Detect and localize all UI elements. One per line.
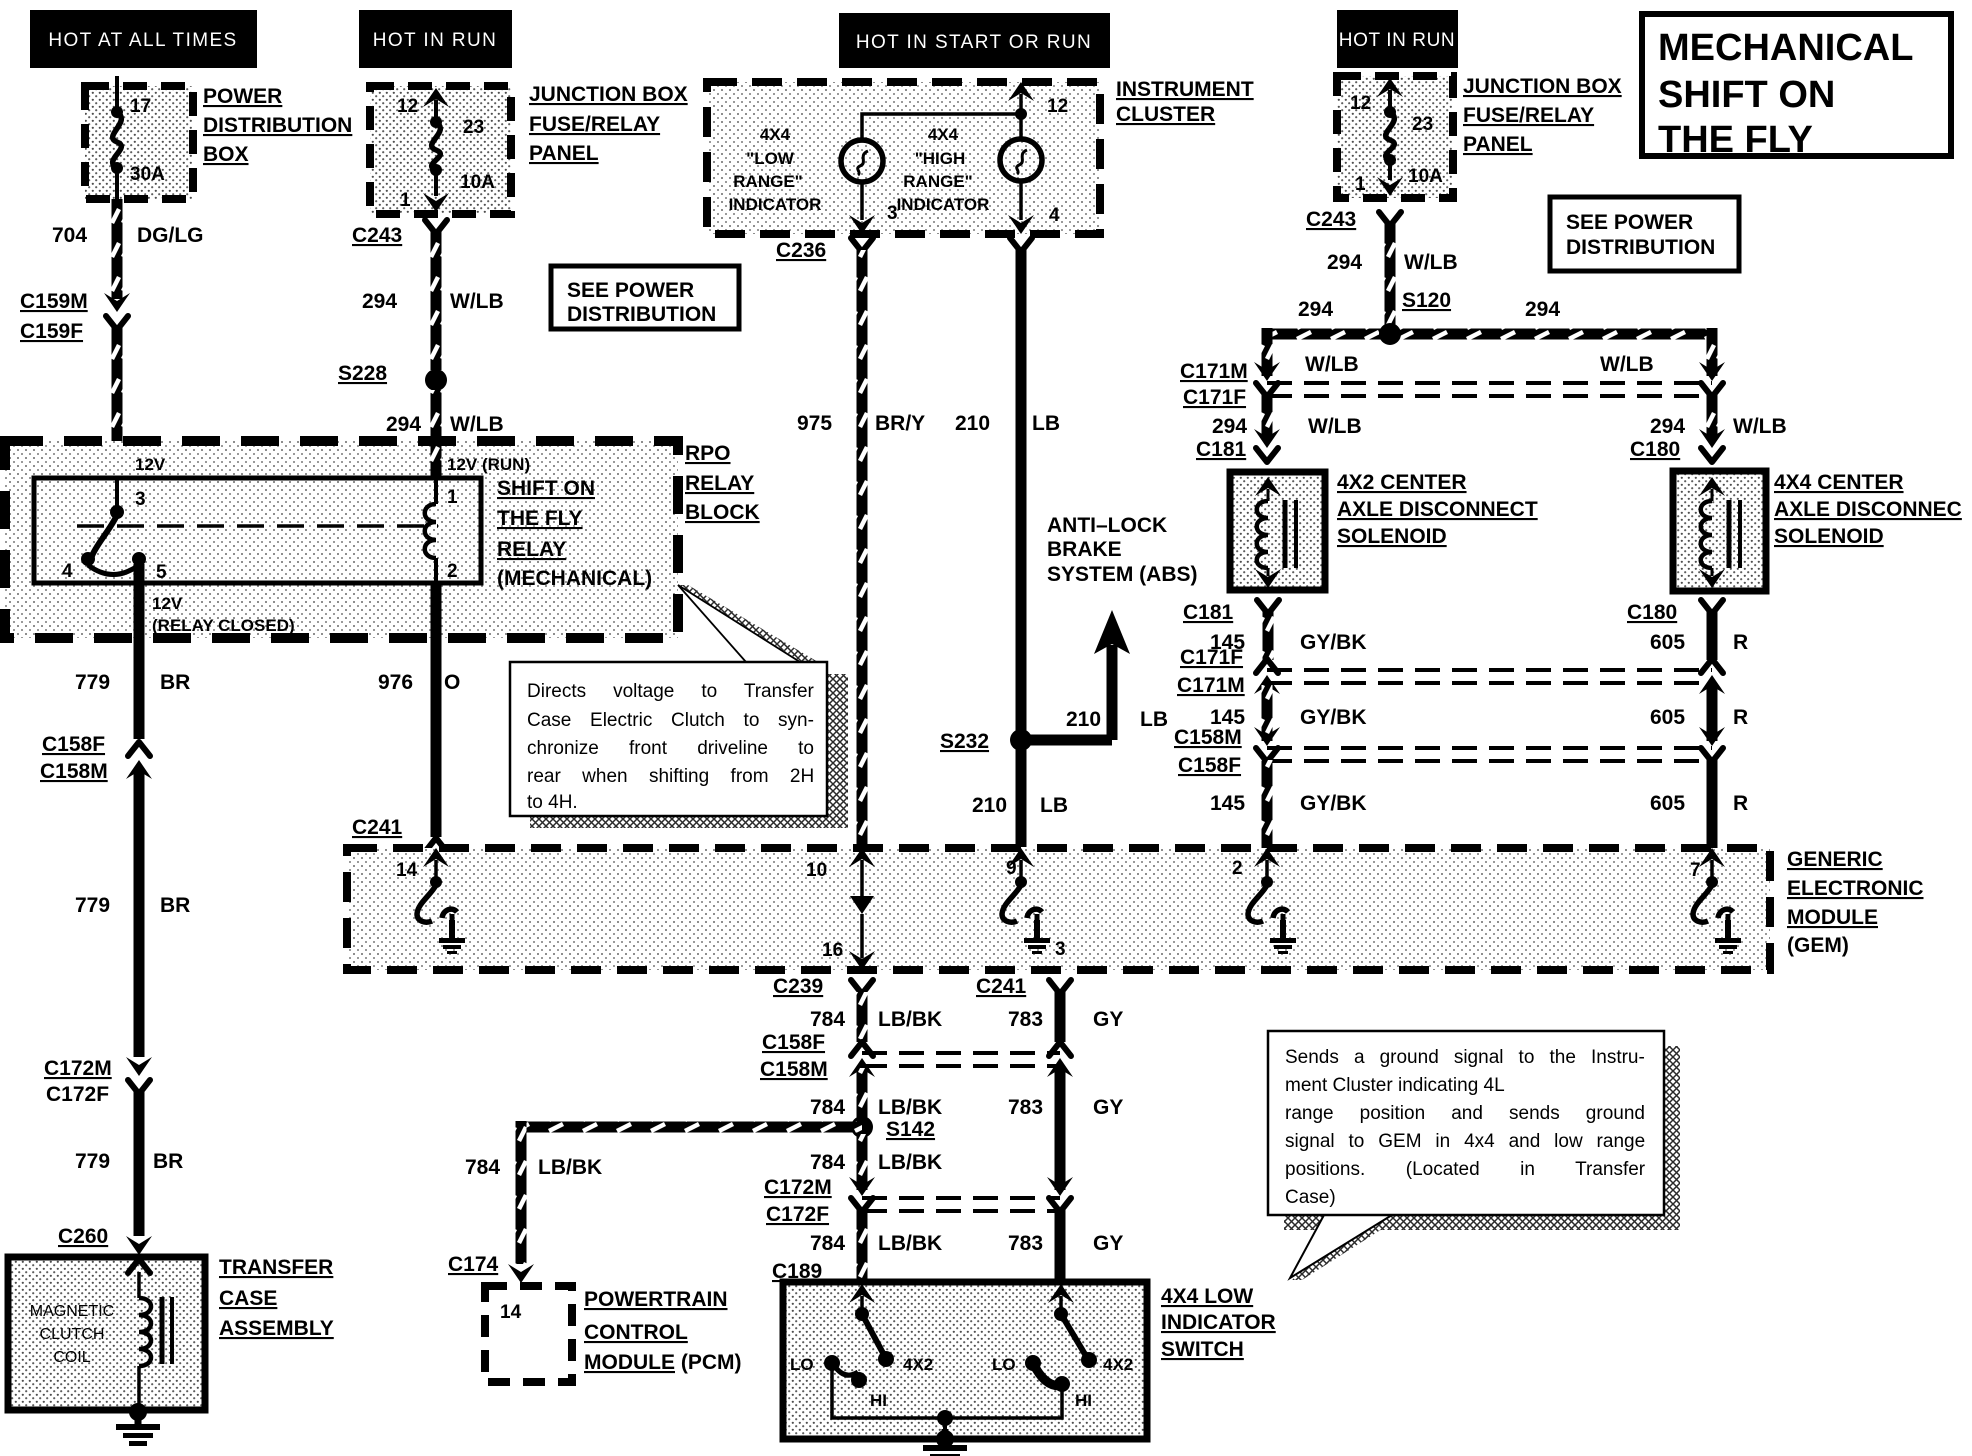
svg-text:Case Electric Clutch to syn-: Case Electric Clutch to syn- xyxy=(527,710,814,731)
svg-text:1: 1 xyxy=(447,487,458,508)
instrument cluster box xyxy=(707,82,1100,234)
svg-text:C171F: C171F xyxy=(1183,386,1246,409)
svg-text:12: 12 xyxy=(1350,93,1371,114)
magnetic clutch coil xyxy=(139,1272,151,1407)
GEM pin 10 xyxy=(849,848,875,896)
svg-text:12: 12 xyxy=(1047,96,1068,117)
svg-text:COIL: COIL xyxy=(53,1349,90,1366)
svg-text:14: 14 xyxy=(396,860,418,881)
title MECHANICAL SHIFT ON THE FLY xyxy=(1642,14,1951,161)
svg-text:C172F: C172F xyxy=(46,1083,109,1106)
svg-text:C243: C243 xyxy=(352,224,402,247)
svg-text:BR: BR xyxy=(160,671,190,694)
banner HOT IN RUN (left) xyxy=(359,10,512,68)
svg-text:GY/BK: GY/BK xyxy=(1300,792,1367,815)
svg-text:12V: 12V xyxy=(152,594,183,613)
contact LO (left) xyxy=(824,1355,840,1371)
connector C172 pair on 783 xyxy=(1047,1177,1073,1212)
svg-text:GY: GY xyxy=(1093,1232,1123,1255)
label 704 DG/LG xyxy=(52,224,204,247)
svg-text:RANGE": RANGE" xyxy=(903,172,972,191)
splice S120 xyxy=(1379,323,1401,345)
wire stub above PDB xyxy=(115,76,119,86)
wire 975 BR/Y xyxy=(857,250,868,847)
svg-text:SEE POWER: SEE POWER xyxy=(567,279,694,302)
fuse 17 30A xyxy=(111,86,123,199)
label JUNCTION BOX FUSE/RELAY PANEL (right) xyxy=(1463,75,1622,156)
svg-text:MECHANICAL: MECHANICAL xyxy=(1658,27,1913,69)
note: directs voltage callout pointer xyxy=(678,585,818,662)
relay contact arc xyxy=(88,565,139,575)
svg-text:CLUTCH: CLUTCH xyxy=(40,1326,105,1343)
svg-text:THE FLY: THE FLY xyxy=(1658,119,1813,161)
relay contact 4 xyxy=(81,552,95,566)
svg-text:C171F: C171F xyxy=(1180,646,1243,669)
connector row C172M/C172F (middle) xyxy=(862,1198,1060,1211)
wire 784 LB/BK seg3 xyxy=(857,1134,868,1190)
wire 783 GY seg2 xyxy=(1055,1068,1066,1190)
generic electronic module (GEM) box xyxy=(347,848,1770,970)
svg-text:294: 294 xyxy=(362,290,397,313)
wire 294 right branch drop xyxy=(1707,328,1718,376)
wire 784 branch to PCM (horizontal) xyxy=(521,1122,862,1133)
cluster wire to low-range lamp xyxy=(862,114,1021,141)
wire 605 R seg3 xyxy=(1707,760,1718,848)
switch right arm xyxy=(1061,1314,1097,1368)
svg-text:5: 5 xyxy=(156,562,167,583)
svg-text:C172M: C172M xyxy=(764,1176,832,1199)
label 4X4 LOW INDICATOR SWITCH xyxy=(1161,1285,1276,1361)
wire 784 LB/BK seg1 xyxy=(857,992,868,1042)
svg-text:LB/BK: LB/BK xyxy=(878,1096,942,1119)
wire 210 LB branch to ABS xyxy=(1026,610,1130,746)
label INSTRUMENT CLUSTER xyxy=(1116,78,1254,126)
svg-text:S232: S232 xyxy=(940,730,989,753)
svg-text:SWITCH: SWITCH xyxy=(1161,1338,1244,1361)
svg-text:1: 1 xyxy=(400,190,411,211)
svg-text:4X2: 4X2 xyxy=(1103,1355,1133,1374)
svg-text:positions. (Located in Transfe: positions. (Located in Transfer xyxy=(1285,1159,1646,1180)
contact HI (left) xyxy=(851,1372,867,1388)
connector C158 pair on 784 xyxy=(849,1042,875,1077)
clutch box entry bell xyxy=(128,1259,150,1273)
svg-text:chronize front driveline to: chronize front driveline to xyxy=(527,738,814,759)
svg-text:SOLENOID: SOLENOID xyxy=(1774,525,1884,548)
label 12V (RELAY CLOSED) xyxy=(152,594,295,635)
svg-text:784: 784 xyxy=(810,1151,845,1174)
ground (transfer case) xyxy=(116,1403,160,1446)
svg-text:PANEL: PANEL xyxy=(529,142,599,165)
wire 605 R seg1 xyxy=(1707,612,1718,660)
svg-text:C181: C181 xyxy=(1196,438,1247,461)
label 784 LB/BK (branch) xyxy=(465,1156,602,1179)
transfer case assembly box (magnetic clutch coil) xyxy=(8,1257,205,1410)
connector C158F/C158M (left) xyxy=(126,742,152,779)
label 784 LB/BK 783 GY (row2) xyxy=(810,1096,1123,1119)
relay box (shift on the fly relay) xyxy=(34,478,481,583)
label 605 R (3) xyxy=(1650,792,1748,815)
svg-text:210: 210 xyxy=(1066,708,1101,731)
svg-text:SEE POWER: SEE POWER xyxy=(1566,211,1693,234)
svg-text:JUNCTION BOX: JUNCTION BOX xyxy=(529,83,688,106)
svg-text:SYSTEM (ABS): SYSTEM (ABS) xyxy=(1047,563,1198,586)
svg-text:605: 605 xyxy=(1650,792,1685,815)
wire 783 GY seg4 xyxy=(1055,1210,1066,1282)
svg-text:GY/BK: GY/BK xyxy=(1300,631,1367,654)
svg-text:784: 784 xyxy=(810,1096,845,1119)
svg-text:3: 3 xyxy=(135,489,146,510)
label 4X2 CENTER AXLE DISCONNECT SOLENOID xyxy=(1337,471,1538,548)
GEM pin 16 exit xyxy=(849,951,875,970)
connector C239 xyxy=(851,980,873,994)
relay pin 3 node xyxy=(110,478,124,519)
wire 704 DG/LG lower xyxy=(112,328,123,478)
4x4 high range indicator lamp xyxy=(1000,139,1042,181)
connector C171 mid pair left xyxy=(1254,659,1280,694)
relay coil xyxy=(425,478,436,583)
svg-text:1: 1 xyxy=(1355,174,1366,195)
4x2 solenoid coil xyxy=(1255,477,1281,588)
connector C236 (pin 4) xyxy=(1010,238,1032,252)
svg-text:LB/BK: LB/BK xyxy=(878,1232,942,1255)
GEM switch at pin 2 xyxy=(1248,885,1288,934)
svg-text:C159M: C159M xyxy=(20,290,88,313)
svg-text:23: 23 xyxy=(463,117,484,138)
wire 783 GY seg1 xyxy=(1055,992,1066,1042)
svg-text:DISTRIBUTION: DISTRIBUTION xyxy=(567,303,716,326)
svg-text:9: 9 xyxy=(1006,858,1017,879)
svg-text:783: 783 xyxy=(1008,1008,1043,1031)
label 210 LB (below S232) xyxy=(972,794,1068,817)
svg-text:145: 145 xyxy=(1210,792,1245,815)
svg-text:signal to GEM in 4x4 and low r: signal to GEM in 4x4 and low range xyxy=(1285,1131,1645,1152)
4x4 solenoid core bars xyxy=(1729,500,1740,568)
svg-text:SHIFT ON: SHIFT ON xyxy=(1658,74,1835,116)
svg-text:C158M: C158M xyxy=(40,760,108,783)
note: sends ground signal shadow xyxy=(1284,1046,1680,1230)
svg-text:W/LB: W/LB xyxy=(450,290,504,313)
GEM switch at pin 9 xyxy=(1002,885,1042,934)
svg-text:4X4: 4X4 xyxy=(928,125,959,144)
connector C243 xyxy=(425,220,447,234)
svg-text:Directs voltage to Transfer: Directs voltage to Transfer xyxy=(527,681,815,702)
svg-text:POWER: POWER xyxy=(203,85,282,108)
svg-text:FUSE/RELAY: FUSE/RELAY xyxy=(529,113,660,136)
switch right detent arc (closed) xyxy=(1033,1363,1065,1386)
relay switch arm xyxy=(92,515,117,556)
svg-text:C172F: C172F xyxy=(766,1203,829,1226)
wire 145 GY/BK seg3 xyxy=(1262,760,1273,848)
label 294 W/LB xyxy=(362,290,504,313)
svg-text:W/LB: W/LB xyxy=(1404,251,1458,274)
svg-text:R: R xyxy=(1733,792,1748,815)
svg-text:C158F: C158F xyxy=(762,1031,825,1054)
svg-text:605: 605 xyxy=(1650,631,1685,654)
svg-text:294: 294 xyxy=(386,413,421,436)
wire 976 O xyxy=(431,583,442,837)
connector row C171M/C171F (top) xyxy=(1267,383,1712,396)
switch left pin entry xyxy=(849,1284,875,1321)
svg-text:12V: 12V xyxy=(135,455,166,474)
svg-text:BLOCK: BLOCK xyxy=(685,501,760,524)
svg-text:4: 4 xyxy=(1049,205,1060,226)
svg-text:Sends a ground signal to the I: Sends a ground signal to the Instru- xyxy=(1285,1047,1645,1068)
svg-text:S120: S120 xyxy=(1402,289,1451,312)
svg-text:C260: C260 xyxy=(58,1225,108,1248)
svg-text:C174: C174 xyxy=(448,1253,499,1276)
connector C171 pair left xyxy=(1254,362,1280,397)
label 294 W/LB (left of C181) xyxy=(1212,415,1362,438)
connector C172 pair on 784 xyxy=(849,1177,875,1212)
connector C172M/C172F (left) xyxy=(126,1057,152,1094)
svg-text:30A: 30A xyxy=(130,164,165,185)
relay internal dashed line xyxy=(77,524,438,528)
wire 605 R seg2 xyxy=(1707,685,1718,741)
label 4X4 "LOW RANGE" INDICATOR xyxy=(729,125,822,214)
wire 784 LB/BK seg2 xyxy=(857,1068,868,1120)
svg-text:O: O xyxy=(444,671,460,694)
wire lamp to pin 4 xyxy=(1008,181,1034,234)
svg-text:BR/Y: BR/Y xyxy=(875,412,925,435)
svg-text:C158M: C158M xyxy=(760,1058,828,1081)
svg-text:ASSEMBLY: ASSEMBLY xyxy=(219,1317,334,1340)
svg-text:LO: LO xyxy=(790,1355,814,1374)
svg-text:CONTROL: CONTROL xyxy=(584,1321,688,1344)
svg-text:HI: HI xyxy=(1075,1391,1092,1410)
connector C243 (right) xyxy=(1379,212,1401,226)
label 145 GY/BK (2) xyxy=(1210,706,1367,729)
svg-text:INDICATOR: INDICATOR xyxy=(897,195,990,214)
svg-text:C241: C241 xyxy=(976,975,1027,998)
connector C260 xyxy=(126,1236,152,1255)
svg-text:779: 779 xyxy=(75,671,110,694)
svg-text:4X4 LOW: 4X4 LOW xyxy=(1161,1285,1253,1308)
splice S232 xyxy=(1010,729,1032,751)
svg-text:704: 704 xyxy=(52,224,87,247)
svg-text:S142: S142 xyxy=(886,1118,935,1141)
svg-text:R: R xyxy=(1733,631,1748,654)
svg-text:10A: 10A xyxy=(1408,166,1443,187)
svg-text:DG/LG: DG/LG xyxy=(137,224,204,247)
powertrain control module box xyxy=(485,1286,572,1382)
svg-text:294: 294 xyxy=(1650,415,1685,438)
svg-text:C171M: C171M xyxy=(1177,674,1245,697)
GEM switch at pin 14 xyxy=(417,885,457,934)
svg-text:C241: C241 xyxy=(352,816,403,839)
svg-text:FUSE/RELAY: FUSE/RELAY xyxy=(1463,104,1594,127)
switch right pin entry xyxy=(1048,1284,1074,1321)
4x4 low indicator switch box xyxy=(783,1282,1147,1439)
svg-text:210: 210 xyxy=(972,794,1007,817)
wire 294 left (to C181) xyxy=(1262,395,1273,437)
svg-text:2: 2 xyxy=(1232,858,1243,879)
connector C171 mid pair right xyxy=(1699,659,1725,694)
svg-text:MODULE: MODULE xyxy=(1787,906,1878,929)
svg-text:AXLE DISCONNEC: AXLE DISCONNEC xyxy=(1774,498,1962,521)
connector C158 pair on 783 xyxy=(1047,1042,1073,1077)
svg-text:POWERTRAIN: POWERTRAIN xyxy=(584,1288,728,1311)
wire 779 BR seg1 xyxy=(134,564,145,739)
note SEE POWER DISTRIBUTION (left) xyxy=(551,266,739,329)
svg-text:C171M: C171M xyxy=(1180,360,1248,383)
wire 145 GY/BK seg2 xyxy=(1262,685,1273,741)
ground (GEM pin 9 switch) xyxy=(1024,920,1050,954)
GEM pin 14 xyxy=(423,848,449,888)
svg-text:12: 12 xyxy=(397,96,418,117)
connector C158 right pair right xyxy=(1699,727,1725,762)
svg-text:BR: BR xyxy=(153,1150,183,1173)
label JUNCTION BOX FUSE/RELAY PANEL xyxy=(529,83,688,165)
label 145 GY/BK (3) xyxy=(1210,792,1367,815)
svg-text:BOX: BOX xyxy=(203,143,249,166)
label ANTI-LOCK BRAKE SYSTEM (ABS) xyxy=(1047,514,1198,586)
svg-text:HOT IN RUN: HOT IN RUN xyxy=(1339,30,1455,51)
svg-text:C172M: C172M xyxy=(44,1057,112,1080)
4x2 solenoid core bars xyxy=(1285,500,1296,568)
banner HOT AT ALL TIMES xyxy=(30,10,257,68)
cluster pin 12 entry xyxy=(1008,82,1034,112)
wire 704 DG/LG upper xyxy=(112,199,123,299)
4x2 center axle disconnect solenoid box xyxy=(1230,472,1325,590)
junction box fuse/relay panel (right) xyxy=(1337,76,1453,198)
svg-text:HOT IN START OR RUN: HOT IN START OR RUN xyxy=(856,32,1092,53)
contact LO (right) xyxy=(1025,1355,1041,1371)
svg-text:ment Cluster indicating 4L: ment Cluster indicating 4L xyxy=(1285,1075,1505,1096)
label 605 R (2) xyxy=(1650,706,1748,729)
wire 294 left branch drop xyxy=(1262,328,1273,376)
svg-text:210: 210 xyxy=(955,412,990,435)
switch ground wiring xyxy=(832,1369,1062,1438)
note: directs voltage shadow xyxy=(530,674,848,828)
svg-text:605: 605 xyxy=(1650,706,1685,729)
svg-text:RPO: RPO xyxy=(685,442,731,465)
svg-text:C158F: C158F xyxy=(42,733,105,756)
svg-text:PANEL: PANEL xyxy=(1463,133,1533,156)
svg-text:10A: 10A xyxy=(460,172,495,193)
svg-text:to 4H.: to 4H. xyxy=(527,792,578,813)
label GENERIC ELECTRONIC MODULE (GEM) xyxy=(1787,848,1924,957)
svg-text:CLUSTER: CLUSTER xyxy=(1116,103,1215,126)
4x4 center axle disconnect solenoid box xyxy=(1673,471,1766,591)
connector C241 (GEM pin 14) xyxy=(425,838,447,852)
svg-text:4X2: 4X2 xyxy=(903,1355,933,1374)
svg-text:W/LB: W/LB xyxy=(1733,415,1787,438)
svg-text:range position and sends groun: range position and sends ground xyxy=(1285,1103,1645,1124)
note: sends ground signal tail xyxy=(1290,1215,1404,1280)
svg-text:JUNCTION BOX: JUNCTION BOX xyxy=(1463,75,1622,98)
svg-text:4: 4 xyxy=(62,561,73,582)
ground (GEM pin 2 switch) xyxy=(1270,920,1296,954)
svg-text:294: 294 xyxy=(1327,251,1362,274)
svg-text:7: 7 xyxy=(1690,860,1701,881)
svg-text:C158F: C158F xyxy=(1178,754,1241,777)
svg-text:784: 784 xyxy=(810,1008,845,1031)
svg-text:2: 2 xyxy=(447,561,458,582)
clutch coil core bars xyxy=(162,1297,172,1364)
label 145 GY/BK (1) xyxy=(1210,631,1367,654)
note: directs voltage box xyxy=(510,662,827,816)
connector C174 xyxy=(508,1264,534,1283)
svg-text:BR: BR xyxy=(160,894,190,917)
svg-text:INDICATOR: INDICATOR xyxy=(1161,1311,1276,1334)
svg-text:779: 779 xyxy=(75,1150,110,1173)
svg-text:294: 294 xyxy=(1298,298,1333,321)
svg-text:BRAKE: BRAKE xyxy=(1047,538,1122,561)
svg-text:THE FLY: THE FLY xyxy=(497,507,583,530)
svg-text:LO: LO xyxy=(992,1355,1016,1374)
svg-text:W/LB: W/LB xyxy=(1600,353,1654,376)
svg-text:784: 784 xyxy=(810,1232,845,1255)
switch left detent arc xyxy=(836,1368,858,1375)
svg-text:DISTRIBUTION: DISTRIBUTION xyxy=(1566,236,1715,259)
wire 779 BR seg3 xyxy=(134,1092,145,1236)
svg-text:LB: LB xyxy=(1040,794,1068,817)
svg-text:W/LB: W/LB xyxy=(1305,353,1359,376)
label 779 BR (2) xyxy=(75,894,190,917)
label 210 LB (branch) xyxy=(1066,708,1168,731)
svg-text:HI: HI xyxy=(870,1391,887,1410)
svg-text:976: 976 xyxy=(378,671,413,694)
GEM pin 7 xyxy=(1699,848,1725,888)
svg-text:3: 3 xyxy=(1055,939,1066,960)
wire 294 right (to C180) xyxy=(1707,395,1718,437)
connector C241 (below GEM) xyxy=(1049,980,1071,994)
svg-text:DISTRIBUTION: DISTRIBUTION xyxy=(203,114,352,137)
svg-text:17: 17 xyxy=(130,96,151,117)
connector C181 (bottom) xyxy=(1257,600,1279,614)
svg-text:C236: C236 xyxy=(776,239,826,262)
ground (GEM pin 7 switch) xyxy=(1715,920,1741,954)
svg-text:W/LB: W/LB xyxy=(450,413,504,436)
svg-text:GY: GY xyxy=(1093,1008,1123,1031)
GEM diode xyxy=(850,896,874,958)
4x4 low range indicator lamp xyxy=(841,140,883,182)
GEM switch at pin 7 xyxy=(1693,885,1733,934)
svg-text:4X2 CENTER: 4X2 CENTER xyxy=(1337,471,1467,494)
label TRANSFER CASE ASSEMBLY xyxy=(219,1256,334,1340)
label 294 W/LB (right) xyxy=(1327,251,1458,274)
wire 784 branch to PCM (vertical) xyxy=(516,1121,527,1264)
RPO relay block xyxy=(5,441,678,638)
svg-text:779: 779 xyxy=(75,894,110,917)
contact HI (right) xyxy=(1054,1376,1070,1392)
svg-text:C159F: C159F xyxy=(20,320,83,343)
splice S142 xyxy=(851,1116,873,1138)
connector C171 pair right xyxy=(1699,362,1725,397)
label 784 LB/BK 783 GY (row4) xyxy=(810,1232,1123,1255)
GEM pin 2 xyxy=(1254,848,1280,888)
svg-text:LB/BK: LB/BK xyxy=(538,1156,602,1179)
ground (GEM pin 14 switch) xyxy=(439,920,465,954)
connector C181 (top) xyxy=(1254,429,1280,462)
label 605 R (1) xyxy=(1650,631,1748,654)
svg-text:ELECTRONIC: ELECTRONIC xyxy=(1787,877,1924,900)
note SEE POWER DISTRIBUTION (right) xyxy=(1550,197,1739,271)
svg-text:CASE: CASE xyxy=(219,1287,277,1310)
svg-text:ANTI–LOCK: ANTI–LOCK xyxy=(1047,514,1167,537)
svg-text:C239: C239 xyxy=(773,975,823,998)
svg-text:rear when shifting from 2H: rear when shifting from 2H xyxy=(527,766,814,787)
label 975 BR/Y 210 LB xyxy=(797,412,1060,435)
label 784 LB/BK 783 GY (row1) xyxy=(810,1008,1123,1031)
ground (4x4 low indicator switch) xyxy=(923,1429,967,1456)
label POWER DISTRIBUTION BOX xyxy=(203,85,352,166)
svg-text:975: 975 xyxy=(797,412,832,435)
label RPO RELAY BLOCK xyxy=(685,442,760,524)
junction box fuse/relay panel (left) xyxy=(370,86,511,214)
relay contact 5 xyxy=(132,552,146,566)
svg-text:16: 16 xyxy=(822,940,843,961)
